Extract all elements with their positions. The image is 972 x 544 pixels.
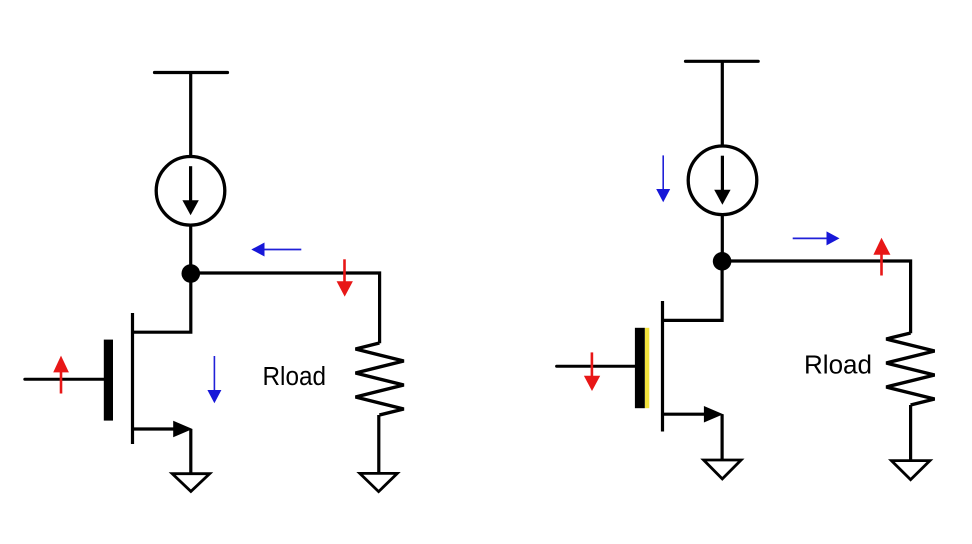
transistor M1 gate bar (left)	[104, 340, 113, 421]
red arrow: gate input signal (right, pointing down)	[584, 352, 600, 391]
gate wire / input (left)	[25, 378, 104, 381]
current source I2 circle (right)	[688, 146, 757, 215]
transistor M1 channel line (left)	[131, 313, 134, 444]
resistor Rload zigzag (left)	[356, 343, 404, 415]
NMOS source arrowhead (right)	[704, 406, 723, 423]
transistor M2 gate bar (right)	[635, 328, 645, 408]
VDD rail (right)	[686, 60, 759, 63]
wire Rload to ground (left)	[377, 415, 380, 474]
source wire with NMOS arrow (left)	[133, 427, 186, 430]
NMOS source arrowhead (left)	[173, 421, 192, 438]
svg-text:Rload: Rload	[263, 361, 327, 391]
blue arrow: drain current (left, pointing down)	[207, 356, 221, 403]
wire source to ground (left)	[189, 429, 192, 474]
current source I1 circle (left)	[156, 157, 225, 226]
node dot: drain node (left)	[182, 264, 201, 283]
red arrow: gate input signal (left, pointing up)	[53, 356, 69, 394]
VDD rail (left)	[155, 71, 228, 74]
resistor Rload zigzag (right)	[886, 333, 934, 405]
current source I2 arrow (right)	[714, 156, 730, 205]
current source I1 arrow (left)	[182, 166, 198, 215]
blue arrow: current direction into node (left, pointing left)	[251, 243, 301, 257]
ground under source (left)	[172, 474, 210, 492]
wire rail to current source (left)	[189, 73, 192, 158]
blue arrow: current source current (right, pointing down)	[656, 155, 670, 202]
wire node to Rload (right)	[722, 261, 911, 333]
blue arrow: current direction out of node (right, pointing right)	[793, 231, 840, 245]
node dot: drain node (right)	[713, 252, 732, 271]
wire current source to node (left)	[189, 225, 192, 268]
yellow highlight on gate bar (right)	[645, 328, 650, 408]
wire node to Rload (left)	[191, 273, 380, 343]
ground under Rload (left)	[360, 473, 398, 491]
transistor M2 channel line (right)	[661, 301, 664, 432]
wire Rload to ground (right)	[909, 405, 912, 461]
wire node down to transistor drain (left)	[133, 273, 191, 332]
wire current source to node (right)	[721, 215, 724, 257]
red arrow: voltage at Rload (right, pointing up)	[873, 238, 890, 276]
ground under Rload (right)	[891, 461, 930, 480]
ground under source (right)	[704, 460, 742, 479]
gate wire / input (right)	[557, 365, 635, 368]
wire rail to current source (right)	[721, 61, 724, 146]
svg-text:Rload: Rload	[804, 350, 872, 380]
red arrow: current through Rload (left, pointing down)	[337, 259, 353, 296]
source wire with NMOS arrow (right)	[663, 413, 717, 416]
wire source to ground (right)	[720, 414, 723, 460]
wire node down to transistor drain (right)	[663, 261, 723, 320]
